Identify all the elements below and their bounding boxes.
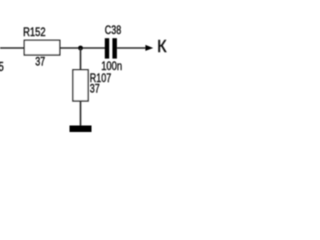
junction node dot (78, 46, 83, 51)
svg-text:R152: R152 (23, 26, 46, 39)
resistor R152 box (24, 40, 60, 55)
ground bar (70, 126, 92, 133)
resistor R107 box (73, 70, 88, 101)
wire R152 to junction to C38 (60, 47, 106, 49)
svg-text:37: 37 (35, 57, 45, 69)
svg-text:C38: C38 (105, 25, 122, 37)
svg-text:100n: 100n (101, 60, 122, 73)
wire left input to R152 (0, 47, 25, 49)
wire junction down to R107 (80, 48, 82, 70)
capacitor C38 plate 1 (105, 38, 109, 58)
capacitor C38 plate 2 (112, 38, 117, 58)
svg-text:К: К (157, 37, 167, 57)
wire C38 to arrow (117, 47, 146, 49)
arrowhead output (145, 45, 153, 51)
svg-text:37: 37 (90, 83, 100, 95)
wire R107 to ground (80, 101, 82, 126)
svg-text:5: 5 (0, 61, 4, 74)
